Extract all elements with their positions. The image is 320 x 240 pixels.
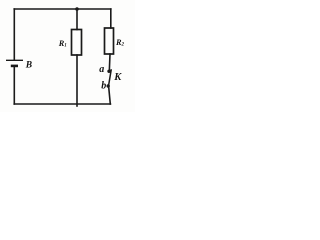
resistor R1 (72, 30, 82, 56)
wire R2 top lead (110, 9, 112, 28)
switch K blade (109, 69, 112, 86)
wire R1 bottom lead (76, 55, 78, 106)
node A contact dot (107, 70, 110, 73)
node B contact dot (107, 84, 110, 87)
resistor R2 (105, 28, 114, 54)
wire left (battery top lead) (13, 9, 15, 60)
svg-text:a: a (99, 64, 104, 75)
svg-text:b: b (101, 81, 106, 92)
wire node b to bottom (109, 86, 111, 104)
wire R2 bottom lead to node a (108, 54, 111, 72)
svg-text:B: B (25, 61, 32, 71)
wire R1 top lead (76, 9, 78, 30)
junction top (75, 7, 79, 11)
wire top (14, 8, 111, 10)
battery B (6, 60, 23, 67)
wire left (battery bottom lead) (13, 66, 15, 104)
svg-text:K: K (113, 72, 122, 83)
wire bottom (14, 103, 110, 105)
